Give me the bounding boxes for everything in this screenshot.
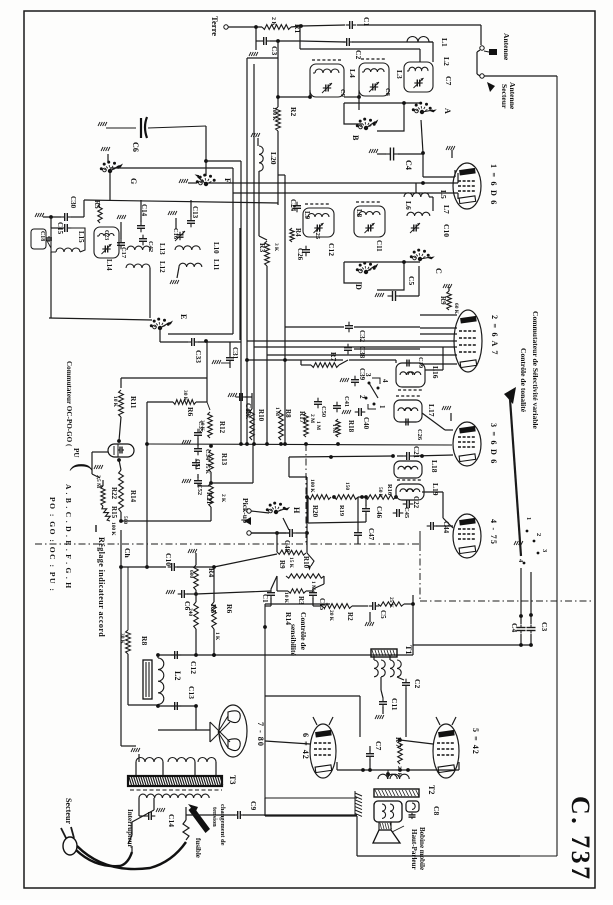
capacitor C31 bbox=[212, 342, 239, 368]
wire eye bbox=[92, 417, 121, 478]
svg-text:15 K: 15 K bbox=[204, 463, 210, 475]
wire r56 join bbox=[196, 629, 216, 657]
svg-text:C4: C4 bbox=[510, 623, 519, 632]
capacitor C45 bbox=[393, 507, 410, 518]
svg-text:C16: C16 bbox=[172, 228, 179, 240]
wire E right bbox=[168, 220, 240, 340]
bus v x267 bbox=[266, 266, 268, 444]
coil L13 bbox=[127, 243, 166, 255]
svg-text:C11: C11 bbox=[375, 240, 383, 252]
capacitor C17 bbox=[117, 215, 127, 259]
svg-text:20 K: 20 K bbox=[328, 610, 334, 622]
coil box L8 C11 bbox=[354, 202, 385, 252]
resistor R17 bbox=[298, 411, 315, 437]
svg-text:R19: R19 bbox=[338, 505, 345, 516]
svg-text:L10: L10 bbox=[212, 242, 220, 254]
label selectivite bbox=[531, 311, 540, 430]
capacitor C5a bbox=[375, 266, 419, 301]
svg-text:60 K: 60 K bbox=[453, 303, 459, 315]
capacitor C21 bbox=[397, 446, 453, 460]
capacitor C1 bbox=[346, 17, 371, 29]
capacitor C6b bbox=[166, 590, 196, 610]
switch H bbox=[266, 502, 301, 515]
node C33 bbox=[204, 339, 208, 343]
svg-text:6 = 42: 6 = 42 bbox=[301, 733, 310, 760]
svg-text:C12: C12 bbox=[327, 243, 336, 256]
label 3-6D6 bbox=[489, 423, 498, 465]
coil box L19 bbox=[396, 480, 440, 500]
svg-text:R15: R15 bbox=[110, 506, 118, 519]
bus v x241 bbox=[240, 161, 242, 444]
tube V4 75 bbox=[453, 514, 481, 558]
wire speaker gnd bbox=[330, 814, 357, 816]
coil L7 bbox=[407, 205, 451, 216]
svg-text:B: B bbox=[351, 135, 360, 141]
resistor R7a bbox=[301, 352, 348, 367]
label L6 bbox=[404, 201, 413, 210]
svg-text:L7: L7 bbox=[442, 205, 451, 214]
capacitor C40 bbox=[355, 408, 370, 430]
capacitor C41 bbox=[333, 396, 351, 414]
capacitor C11b bbox=[375, 690, 399, 719]
selector arrow bbox=[188, 804, 210, 833]
wire C6-F bbox=[205, 126, 207, 176]
label pickup bbox=[241, 498, 251, 525]
resistor R3b bbox=[277, 576, 313, 605]
label tonalite bbox=[519, 348, 528, 413]
svg-text:A: A bbox=[443, 108, 452, 114]
svg-text:L19: L19 bbox=[431, 483, 440, 496]
svg-text:C38: C38 bbox=[358, 346, 366, 359]
svg-text:C4: C4 bbox=[404, 160, 413, 170]
wire l2 bbox=[156, 653, 160, 708]
svg-text:C26: C26 bbox=[296, 248, 304, 261]
svg-text:R11: R11 bbox=[129, 396, 138, 409]
svg-text:C9: C9 bbox=[249, 801, 258, 810]
ground C4 bbox=[369, 149, 386, 154]
bus y444 bbox=[145, 442, 452, 446]
svg-text:tension: tension bbox=[211, 807, 218, 827]
svg-text:1 K: 1 K bbox=[214, 632, 220, 641]
svg-text:100 K: 100 K bbox=[271, 107, 277, 121]
svg-text:R4: R4 bbox=[294, 228, 302, 237]
svg-text:H: H bbox=[292, 507, 301, 514]
wire R2 drop bbox=[276, 41, 280, 107]
capacitor C35 bbox=[182, 421, 204, 446]
svg-text:C9: C9 bbox=[339, 89, 346, 97]
svg-text:Terre: Terre bbox=[210, 16, 220, 36]
svg-text:1 M: 1 M bbox=[274, 407, 280, 416]
node R1 junction bbox=[299, 24, 303, 28]
svg-text:fusible: fusible bbox=[194, 838, 202, 858]
bus avc bbox=[121, 341, 207, 402]
capacitor C15a bbox=[51, 217, 71, 235]
svg-text:L17: L17 bbox=[427, 404, 436, 417]
wire R14 bus bbox=[119, 512, 211, 523]
svg-text:C49: C49 bbox=[244, 403, 252, 416]
svg-text:C41: C41 bbox=[343, 396, 350, 407]
switch tonalite bbox=[358, 373, 389, 409]
tube V1 6D6 bbox=[453, 163, 481, 209]
wire E bus bbox=[49, 318, 152, 320]
switch E bbox=[150, 314, 188, 342]
svg-text:R9: R9 bbox=[278, 560, 286, 569]
svg-text:C22: C22 bbox=[412, 496, 420, 509]
svg-text:C21: C21 bbox=[412, 446, 420, 459]
svg-text:L6: L6 bbox=[404, 201, 413, 210]
bus v x285 bbox=[278, 175, 285, 444]
label 2-6A7 bbox=[490, 315, 499, 356]
label hautparleur bbox=[410, 827, 426, 870]
T3 core bbox=[128, 775, 237, 786]
resistor R15 bbox=[102, 506, 118, 536]
capacitor C44 bbox=[427, 521, 453, 534]
T3 dash bbox=[130, 789, 222, 791]
label reglage bbox=[97, 537, 106, 637]
wire F-x241 bbox=[206, 160, 241, 162]
svg-text:C11: C11 bbox=[390, 698, 399, 711]
resistor R2 bbox=[271, 107, 298, 131]
svg-text:R2: R2 bbox=[346, 612, 354, 621]
svg-text:Réglage indicateur accord: Réglage indicateur accord bbox=[97, 537, 106, 637]
capacitor C4 bbox=[385, 148, 413, 170]
coil L5 bbox=[404, 183, 448, 211]
capacitor C34 bbox=[194, 445, 211, 461]
svg-text:Commutateur OC-PO-GO (: Commutateur OC-PO-GO ( bbox=[65, 361, 73, 447]
bus C38 bbox=[245, 358, 343, 362]
svg-text:L11: L11 bbox=[212, 259, 220, 271]
svg-text:C6: C6 bbox=[131, 142, 140, 152]
svg-text:1 = 6 D 6: 1 = 6 D 6 bbox=[489, 164, 498, 206]
terminal Terre bbox=[210, 16, 228, 36]
svg-text:R8: R8 bbox=[284, 409, 292, 418]
svg-text:T2: T2 bbox=[427, 785, 436, 794]
coil L15 bbox=[51, 228, 85, 252]
svg-text:L16: L16 bbox=[431, 366, 440, 379]
wire H bbox=[283, 457, 307, 533]
bus coils top bbox=[71, 173, 278, 217]
resistor R11 bbox=[112, 390, 138, 417]
svg-text:L20: L20 bbox=[269, 152, 278, 165]
svg-text:5 = 42: 5 = 42 bbox=[471, 728, 480, 755]
wire L19 out bbox=[422, 492, 453, 528]
svg-text:C5: C5 bbox=[407, 276, 416, 285]
svg-text:C. 737: C. 737 bbox=[566, 796, 595, 882]
capacitor C6 bbox=[98, 117, 206, 152]
resistor R18 bbox=[331, 419, 355, 437]
svg-text:Commutateur de Sélectivité: Commutateur de Sélectivité variable bbox=[531, 311, 540, 430]
resistor R16 bbox=[365, 484, 398, 499]
wires V2 grids bbox=[247, 315, 457, 364]
ground C3 bbox=[249, 41, 258, 56]
capacitor C9 bbox=[186, 801, 330, 819]
svg-text:C31: C31 bbox=[231, 347, 239, 360]
coil box L18 bbox=[394, 460, 439, 478]
svg-text:C13: C13 bbox=[187, 686, 196, 699]
svg-text:Contrôle de: Contrôle de bbox=[299, 612, 308, 651]
label 4-75 bbox=[489, 519, 498, 545]
wire reglage arrow bbox=[95, 525, 97, 532]
svg-text:600: 600 bbox=[188, 570, 194, 578]
svg-text:L3: L3 bbox=[395, 70, 404, 79]
wire C1-antenne bbox=[357, 25, 481, 45]
svg-text:Contrôle de tonalité: Contrôle de tonalité bbox=[519, 348, 528, 413]
switch G bbox=[100, 161, 138, 185]
bus 696 bbox=[265, 695, 360, 697]
coil L12 bbox=[126, 261, 166, 273]
capacitor C7b bbox=[366, 741, 383, 770]
capacitor C12b bbox=[171, 651, 198, 674]
svg-text:R18: R18 bbox=[347, 420, 355, 433]
svg-text:T3: T3 bbox=[228, 775, 237, 784]
choke L2 bbox=[143, 658, 182, 704]
svg-text:240: 240 bbox=[187, 608, 193, 616]
svg-text:C45: C45 bbox=[403, 507, 410, 518]
svg-text:Antenne: Antenne bbox=[502, 33, 511, 61]
switch sel contacts bbox=[514, 517, 548, 564]
capacitor C5b bbox=[365, 602, 387, 626]
tube V6 42 bbox=[310, 717, 336, 778]
svg-text:3 = 6 D 6: 3 = 6 D 6 bbox=[489, 423, 498, 465]
svg-text:(: ( bbox=[69, 463, 96, 471]
svg-text:L8: L8 bbox=[355, 209, 363, 218]
svg-text:L2: L2 bbox=[442, 57, 451, 66]
svg-text:C17: C17 bbox=[120, 247, 127, 259]
svg-text:L5: L5 bbox=[439, 190, 448, 199]
speaker bbox=[373, 822, 404, 843]
label antenne secteur bbox=[487, 82, 517, 110]
wire C4 bbox=[398, 153, 423, 155]
svg-text:PU: PU bbox=[72, 448, 80, 458]
resistor R8a bbox=[274, 407, 292, 440]
T1 core bbox=[371, 645, 413, 657]
capacitor C3 bbox=[254, 25, 420, 62]
node F top bbox=[204, 159, 208, 163]
coil L1 bbox=[407, 37, 449, 63]
label C12a bbox=[327, 243, 336, 256]
svg-text:C35: C35 bbox=[197, 421, 204, 432]
svg-text:Secteur: Secteur bbox=[500, 84, 509, 109]
svg-text:E: E bbox=[179, 314, 188, 319]
switch A bbox=[412, 102, 452, 115]
svg-text:R20: R20 bbox=[311, 505, 319, 518]
svg-text:C25: C25 bbox=[314, 228, 321, 239]
capacitor C52 bbox=[182, 474, 211, 495]
svg-text:10 K: 10 K bbox=[283, 592, 289, 604]
right inner rail wire bbox=[520, 76, 557, 856]
eye tube bbox=[108, 439, 134, 462]
svg-text:C46: C46 bbox=[375, 506, 383, 519]
svg-text:F: F bbox=[223, 178, 232, 183]
coil box L14 C23 bbox=[94, 227, 119, 271]
svg-text:C18: C18 bbox=[39, 231, 45, 241]
svg-text:C24: C24 bbox=[289, 199, 297, 212]
T3 HT winding bbox=[131, 748, 216, 775]
capacitor C2 bbox=[343, 38, 363, 59]
resistor R3 bbox=[258, 241, 279, 266]
label 6-42 bbox=[301, 733, 310, 760]
svg-text:L14: L14 bbox=[105, 259, 113, 271]
wire L16 bbox=[349, 347, 443, 370]
svg-text:Interrupteur: Interrupteur bbox=[126, 809, 134, 848]
capacitor C13a bbox=[187, 200, 199, 227]
resistor R10a bbox=[244, 408, 265, 440]
svg-text:C3: C3 bbox=[540, 622, 549, 631]
svg-text:R2: R2 bbox=[289, 107, 298, 116]
coil box L9 C25 bbox=[303, 204, 334, 239]
svg-text:1: 1 bbox=[378, 405, 386, 409]
svg-text:3 K: 3 K bbox=[273, 243, 279, 252]
wire R1-C1 bbox=[291, 25, 345, 27]
switch B bbox=[351, 118, 378, 141]
wire B nest bbox=[344, 96, 420, 131]
bus g2 bbox=[233, 192, 458, 194]
svg-text:C23: C23 bbox=[103, 230, 109, 240]
coil C8b bbox=[406, 801, 441, 819]
svg-text:50 K: 50 K bbox=[377, 487, 383, 499]
resistor R4a bbox=[290, 228, 302, 242]
wire bottom left bbox=[265, 798, 520, 856]
resistor R6b bbox=[196, 554, 277, 641]
wire L20 down bbox=[259, 171, 267, 240]
wire T1 leads bbox=[374, 655, 404, 690]
svg-text:R4: R4 bbox=[207, 568, 216, 577]
svg-text:L9: L9 bbox=[303, 211, 311, 220]
tube V2 6A7 bbox=[454, 310, 482, 372]
capacitor C14b bbox=[139, 798, 176, 827]
capacitor C14a bbox=[137, 200, 148, 232]
svg-text:C47: C47 bbox=[367, 528, 375, 541]
svg-text:100 K: 100 K bbox=[309, 479, 315, 493]
wire R6 left bbox=[145, 402, 149, 569]
ground V1 top bbox=[446, 146, 455, 158]
svg-text:C10: C10 bbox=[442, 224, 451, 237]
coil box L4 C9 bbox=[310, 60, 357, 97]
svg-text:C32: C32 bbox=[358, 330, 366, 343]
svg-text:changement de: changement de bbox=[219, 804, 226, 846]
terminal pickup2 bbox=[247, 531, 289, 535]
capacitor C30 bbox=[35, 196, 77, 221]
svg-text:C12: C12 bbox=[189, 661, 198, 674]
svg-text:C14: C14 bbox=[167, 814, 176, 827]
svg-text:T1: T1 bbox=[404, 645, 413, 654]
svg-text:L12: L12 bbox=[158, 261, 166, 273]
capacitor C15b bbox=[309, 576, 326, 611]
svg-text:C51: C51 bbox=[194, 459, 201, 470]
coil L11 bbox=[179, 259, 220, 271]
capacitor C46 bbox=[362, 495, 383, 522]
svg-text:sensibilité: sensibilité bbox=[289, 624, 298, 657]
svg-text:C44: C44 bbox=[442, 521, 450, 534]
T3 primary bbox=[139, 794, 209, 798]
svg-text:R9: R9 bbox=[439, 296, 447, 305]
wire L12 down bbox=[149, 268, 151, 318]
fusible bbox=[183, 807, 202, 858]
svg-text:R17: R17 bbox=[298, 411, 306, 424]
svg-text:2 M: 2 M bbox=[309, 414, 315, 423]
bus y457 bbox=[289, 454, 395, 459]
resistor R4b bbox=[188, 549, 216, 590]
pole hatch bbox=[355, 791, 362, 816]
switch F bbox=[195, 174, 233, 187]
svg-text:4 - 75: 4 - 75 bbox=[489, 519, 498, 545]
svg-text:C7: C7 bbox=[374, 741, 383, 750]
terminal ant1 bbox=[480, 46, 497, 55]
capacitor C42 bbox=[139, 235, 154, 252]
label C.737 bbox=[566, 796, 595, 882]
T1 windings bbox=[374, 660, 401, 677]
svg-text:L2: L2 bbox=[173, 671, 182, 680]
svg-text:C19: C19 bbox=[417, 357, 424, 368]
svg-text:C13: C13 bbox=[191, 206, 199, 219]
coil box L16 bbox=[396, 357, 440, 390]
svg-text:R10: R10 bbox=[257, 409, 265, 422]
label controle sens bbox=[289, 612, 308, 657]
svg-text:L18: L18 bbox=[430, 460, 439, 473]
svg-text:2 K: 2 K bbox=[220, 494, 226, 503]
coil L10 bbox=[175, 242, 220, 254]
svg-text:C5: C5 bbox=[379, 610, 387, 619]
svg-text:R22: R22 bbox=[110, 487, 118, 500]
chassis dash v2 bbox=[305, 444, 307, 544]
capacitor C3b bbox=[527, 572, 550, 645]
svg-text:Ch: Ch bbox=[123, 548, 132, 558]
wire pickup box bbox=[211, 445, 253, 483]
svg-text:C10: C10 bbox=[164, 553, 173, 566]
wire V1 left bbox=[457, 173, 459, 199]
svg-text:C: C bbox=[434, 268, 443, 274]
resistor R2b bbox=[313, 604, 368, 622]
wire elec bbox=[413, 643, 533, 647]
resistor R12 bbox=[199, 412, 226, 438]
wire V1 plate bbox=[423, 170, 455, 177]
ground V3 top bbox=[442, 406, 451, 421]
capacitor C47 bbox=[354, 497, 375, 544]
svg-text:R13: R13 bbox=[220, 453, 228, 466]
svg-text:R6: R6 bbox=[186, 407, 195, 416]
resistor R7b bbox=[394, 737, 402, 778]
svg-text:G: G bbox=[129, 178, 138, 185]
svg-text:15 K: 15 K bbox=[288, 557, 294, 569]
capacitor C32 bbox=[285, 322, 420, 343]
svg-text:500: 500 bbox=[122, 516, 128, 524]
label letters bbox=[48, 484, 73, 592]
capacitor C49 bbox=[228, 393, 252, 416]
resistor R6a bbox=[147, 390, 207, 416]
chassis dash h2 bbox=[420, 600, 593, 602]
capacitor C39 bbox=[340, 368, 366, 386]
label secteur bbox=[64, 798, 73, 824]
wire 696r bbox=[360, 696, 406, 737]
svg-text:C7: C7 bbox=[444, 76, 453, 85]
coil box L2 C7 bbox=[404, 57, 453, 92]
resistor R1 bbox=[262, 17, 302, 33]
svg-text:C40: C40 bbox=[362, 417, 370, 430]
svg-text:Secteur: Secteur bbox=[64, 798, 73, 824]
resistor R13 bbox=[204, 444, 228, 475]
svg-text:C30: C30 bbox=[69, 196, 77, 209]
label Ch bbox=[119, 548, 132, 569]
wire L17 grid bbox=[422, 413, 453, 430]
bus G-F bbox=[110, 168, 233, 220]
svg-text:D: D bbox=[354, 284, 363, 290]
tube V7 80 bbox=[210, 705, 247, 757]
wire R2 down bbox=[277, 131, 279, 205]
interrupteur bbox=[126, 798, 154, 852]
bus g1 bbox=[207, 181, 458, 185]
wire boxbottoms bbox=[278, 90, 361, 99]
resistor R5b bbox=[187, 591, 271, 629]
